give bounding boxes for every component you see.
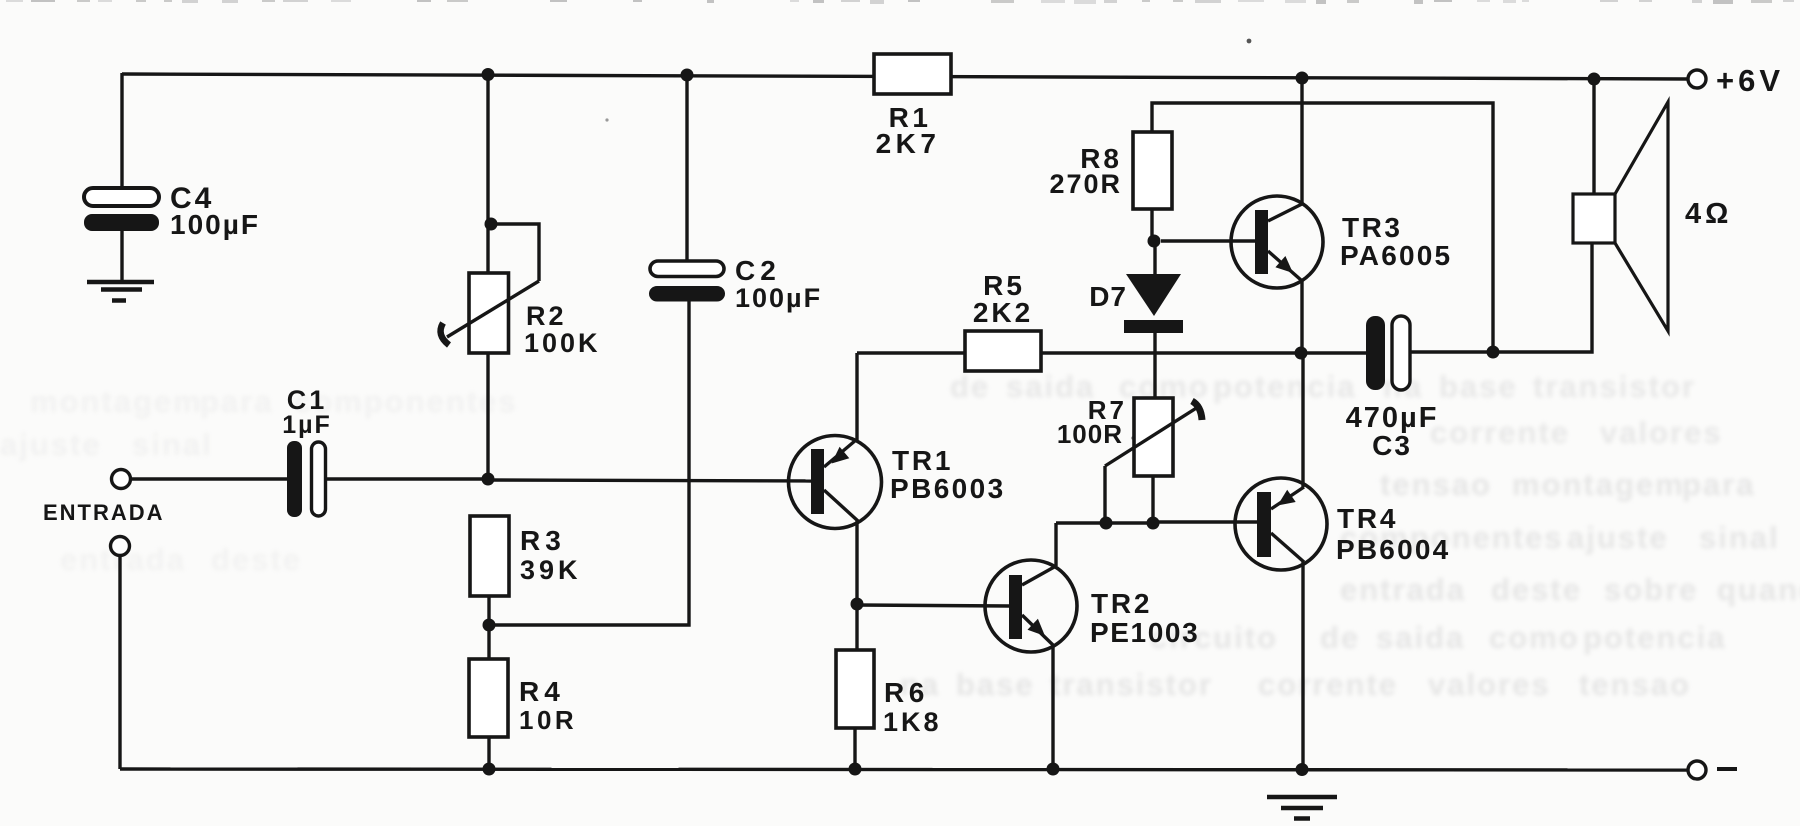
svg-text:100K: 100K	[524, 328, 601, 358]
svg-text:TR4: TR4	[1337, 503, 1398, 534]
node R3/R4/C2 junction	[483, 619, 496, 632]
svg-text:para: para	[200, 384, 273, 419]
svg-text:R3: R3	[520, 525, 566, 556]
svg-text:PA6005: PA6005	[1340, 240, 1452, 271]
node junction top rail / TR3 collector	[1296, 72, 1309, 85]
node input / divider junction	[482, 473, 495, 486]
node R7 bottom junction	[1147, 517, 1160, 530]
wire R8 to D7 node	[1150, 209, 1153, 241]
svg-text:tensao: tensao	[1579, 667, 1691, 702]
wire emitter to R5	[857, 351, 965, 354]
svg-text:270R: 270R	[1049, 169, 1122, 199]
terminal ENTRADA return	[111, 537, 130, 556]
transistor TR2	[985, 560, 1077, 652]
svg-text:R2: R2	[526, 301, 567, 331]
wire input return to bottom rail	[118, 556, 121, 769]
wire to R6	[855, 604, 858, 650]
wire TR2 collector to bias net	[1056, 521, 1106, 524]
node bottom rail / R4	[483, 763, 496, 776]
svg-text:D7: D7	[1089, 281, 1127, 312]
wire TR1 emitter up	[855, 353, 858, 440]
wire TR3 collector to rail	[1300, 78, 1303, 204]
svg-text:C3: C3	[1372, 430, 1412, 461]
svg-text:sobre: sobre	[1604, 572, 1698, 607]
svg-text:1µF: 1µF	[282, 411, 332, 439]
wire base node to TR1	[488, 480, 812, 481]
svg-text:100R: 100R	[1057, 419, 1123, 449]
wire C2 top to rail	[685, 74, 688, 261]
svg-text:saida: saida	[1006, 369, 1095, 404]
wire to TR2 base	[857, 605, 1010, 606]
speaker 4R	[1592, 79, 1595, 194]
wire TR2 emitter down	[1051, 645, 1054, 769]
node R7 wiper junction	[1100, 517, 1113, 530]
svg-text:sinal: sinal	[1699, 520, 1780, 555]
svg-text:transistor: transistor	[1050, 667, 1213, 702]
wire junction to R4	[487, 625, 490, 659]
svg-text:tensao: tensao	[1380, 467, 1492, 502]
transistor TR1	[789, 436, 882, 529]
node junction top rail / speaker	[1588, 73, 1601, 86]
svg-text:de: de	[950, 369, 990, 404]
node TR1 collector junction	[851, 598, 864, 611]
wire bias net	[1106, 521, 1153, 524]
resistor R5	[965, 331, 1041, 371]
svg-text:corrente: corrente	[1258, 667, 1398, 702]
wire R5 to output node	[1041, 351, 1301, 354]
svg-text:entrada: entrada	[1340, 572, 1466, 607]
wire rail to R2	[486, 74, 489, 273]
svg-text:como: como	[1489, 620, 1580, 655]
node junction top rail / R2 column	[482, 68, 495, 81]
ground C4	[87, 280, 154, 285]
svg-text:montagem: montagem	[1512, 467, 1685, 502]
svg-text:TR3: TR3	[1342, 212, 1402, 243]
svg-text:valores: valores	[1600, 415, 1723, 450]
svg-text:ENTRADA: ENTRADA	[43, 500, 165, 525]
svg-text:R6: R6	[884, 677, 929, 708]
svg-text:PE1003: PE1003	[1090, 617, 1199, 648]
svg-text:deste: deste	[1491, 572, 1582, 607]
capacitor C4	[84, 188, 159, 206]
svg-text:2K7: 2K7	[876, 128, 941, 159]
diode D7	[1126, 274, 1181, 316]
svg-text:de: de	[1320, 620, 1360, 655]
wire R2 wiper tie	[491, 224, 539, 281]
wire node to D7	[1153, 241, 1156, 274]
terminal minus	[1688, 761, 1706, 779]
wire R3 to junction	[487, 596, 490, 625]
resistor R8	[1133, 132, 1172, 209]
svg-text:potencia: potencia	[1213, 369, 1356, 404]
capacitor C3	[1366, 316, 1385, 390]
resistor R1	[874, 54, 951, 94]
svg-text:quando: quando	[1717, 572, 1800, 607]
node R2 wiper junction	[485, 218, 498, 231]
svg-text:TR2: TR2	[1091, 588, 1152, 619]
node R8/D7/TR3 base junction	[1148, 235, 1161, 248]
svg-text:ajuste: ajuste	[0, 427, 102, 462]
svg-text:sinal: sinal	[132, 427, 213, 462]
capacitor C1	[287, 441, 302, 517]
wire TR4 collector down	[1301, 562, 1304, 769]
wire bottom rail	[120, 769, 1689, 770]
wire R8 top to bootstrap	[1152, 103, 1493, 352]
svg-text:39K: 39K	[520, 555, 582, 585]
svg-text:ajuste: ajuste	[1567, 520, 1669, 555]
terminal +6V	[1688, 70, 1706, 88]
svg-text:corrente: corrente	[1430, 415, 1570, 450]
ground bottom	[1267, 795, 1337, 800]
wire R4 to bottom rail	[487, 737, 490, 769]
svg-text:100µF: 100µF	[170, 209, 260, 240]
wire junction to C2 bottom	[489, 301, 689, 625]
resistor R3	[470, 516, 509, 596]
node bottom rail / TR4 collector ground	[1296, 763, 1309, 776]
resistor R4	[469, 659, 508, 737]
svg-text:2K2: 2K2	[973, 297, 1033, 328]
svg-text:deste: deste	[211, 542, 302, 577]
wire R7 bottom down	[1151, 476, 1154, 523]
node bootstrap/speaker junction	[1487, 346, 1500, 359]
svg-text:PB6004: PB6004	[1336, 534, 1450, 565]
svg-text:TR1: TR1	[892, 445, 953, 476]
node output junction	[1295, 347, 1308, 360]
terminal ENTRADA hot	[112, 470, 131, 489]
svg-text:+6V: +6V	[1716, 63, 1784, 98]
wire R2 to input node	[486, 352, 489, 479]
wire bias net to TR4 base	[1153, 520, 1258, 523]
svg-text:saida: saida	[1376, 620, 1465, 655]
svg-text:para: para	[1682, 467, 1755, 502]
wire top +6V supply rail	[122, 74, 1689, 79]
svg-text:base: base	[956, 667, 1035, 702]
svg-text:base: base	[1439, 369, 1518, 404]
svg-text:1K8: 1K8	[883, 707, 942, 737]
svg-text:montagem: montagem	[30, 384, 203, 419]
node junction top rail / C2 column	[681, 69, 694, 82]
svg-text:4Ω: 4Ω	[1685, 198, 1732, 230]
trimmer R7	[1134, 398, 1173, 476]
node bottom rail / R6	[849, 763, 862, 776]
wire D7 to R7	[1153, 333, 1156, 398]
wire TR3 base	[1161, 239, 1256, 242]
svg-text:transistor: transistor	[1533, 369, 1696, 404]
svg-text:potencia: potencia	[1583, 620, 1726, 655]
svg-text:PB6003: PB6003	[890, 473, 1006, 504]
wire input to C1	[130, 477, 288, 480]
label minus	[1717, 767, 1737, 771]
capacitor C2	[650, 261, 724, 277]
wire to speaker	[1493, 243, 1592, 352]
resistor R6	[836, 650, 874, 728]
svg-text:R4: R4	[519, 676, 565, 707]
svg-text:100µF: 100µF	[735, 283, 822, 313]
wire TR1 collector down	[855, 521, 858, 604]
wire R7 wiper down	[1103, 466, 1106, 523]
wire C1 to base node	[326, 477, 488, 480]
wire TR3 emitter to output node	[1300, 280, 1303, 353]
wire TR2 collector up	[1054, 523, 1057, 566]
trimmer R2	[469, 273, 509, 353]
wire C4 to ground	[120, 231, 123, 282]
transistor TR3	[1231, 196, 1323, 288]
wire output node to C3	[1301, 351, 1367, 354]
svg-text:valores: valores	[1428, 667, 1551, 702]
transistor TR4	[1235, 478, 1327, 570]
node bottom rail / TR2 emitter	[1047, 763, 1060, 776]
wire C3 to speaker node	[1410, 350, 1493, 353]
wire rail to C4	[120, 73, 123, 190]
wire TR4 emitter up	[1301, 353, 1304, 487]
svg-text:C2: C2	[735, 255, 781, 286]
svg-text:10R: 10R	[519, 705, 577, 735]
wire R6 to bottom rail	[853, 728, 856, 769]
